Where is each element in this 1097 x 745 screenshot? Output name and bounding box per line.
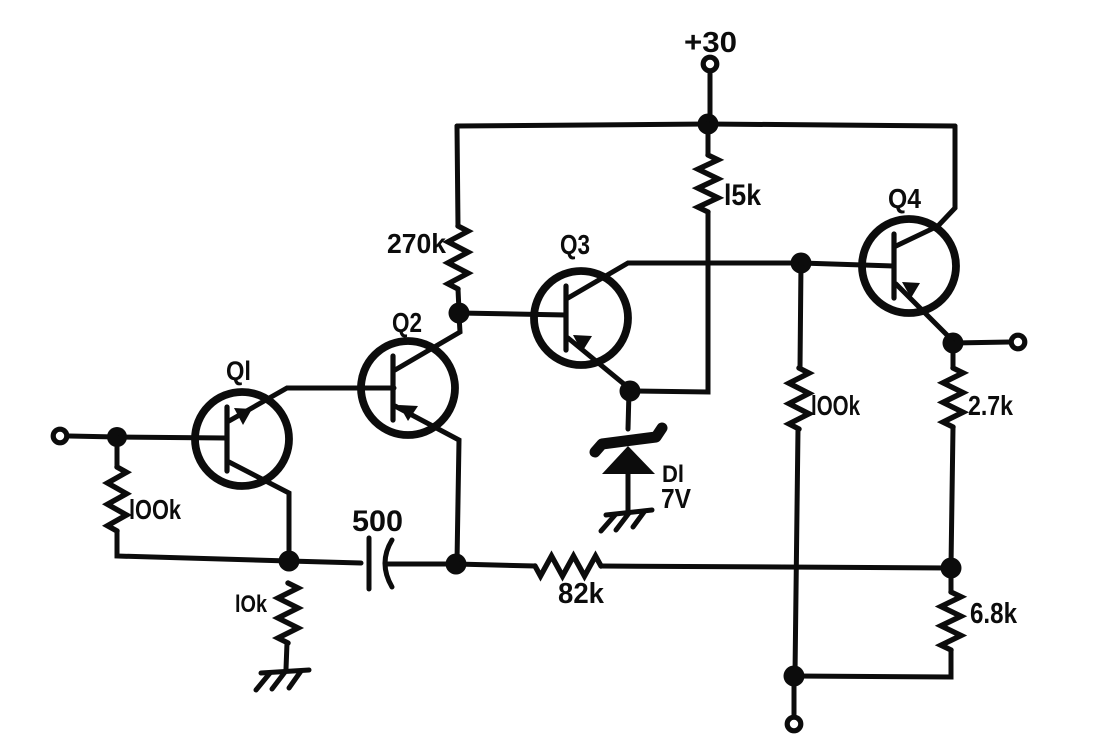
svg-text:270k: 270k <box>387 228 446 259</box>
wire 270k to node B <box>458 289 459 311</box>
terminal input <box>53 429 67 443</box>
svg-text:Q2: Q2 <box>392 307 422 338</box>
wire rail to 270k <box>457 126 458 226</box>
wire output node to 2.7k <box>951 343 956 368</box>
label 10k <box>235 591 268 618</box>
Q1 collector lead <box>229 462 289 559</box>
capacitor 500 <box>369 538 392 589</box>
resistor 10k <box>278 583 298 643</box>
resistor 82k <box>535 556 601 576</box>
transistor Q4 (PNP) <box>862 219 956 313</box>
svg-text:7V: 7V <box>661 483 691 514</box>
Q4 emitter arrow (PNP) <box>902 282 920 298</box>
label Q2 <box>392 307 422 338</box>
wire node F to 6.8k <box>949 568 954 592</box>
svg-text:lOk: lOk <box>235 591 268 618</box>
wire bottom rail to capacitor <box>289 561 361 563</box>
zener D1 anode triangle <box>602 446 655 474</box>
node E (Q3 collector / 100k / Q4 base) <box>791 253 812 274</box>
label 15k <box>724 179 761 212</box>
transistor Q1 (PNP) <box>195 392 289 486</box>
Q1 emitter arrow (PNP) <box>234 408 252 425</box>
Q4 collector lead <box>896 126 955 246</box>
wire input to Q1 base <box>69 436 226 438</box>
wire capacitor to node C <box>387 562 456 567</box>
svg-text:2.7k: 2.7k <box>968 390 1013 421</box>
wire top supply rail <box>457 124 955 126</box>
node Q1 collector junction <box>279 551 300 572</box>
label Q3 <box>560 229 590 260</box>
svg-text:Q3: Q3 <box>560 229 590 260</box>
svg-text:82k: 82k <box>558 578 605 610</box>
resistor 15k <box>698 155 718 212</box>
node input bias junction <box>107 427 127 447</box>
transistor Q2 (PNP) <box>361 341 455 435</box>
wire 15k to node D <box>632 212 708 392</box>
label 500 <box>352 505 403 538</box>
Q3 collector lead <box>568 263 801 298</box>
terminal output <box>1011 335 1025 349</box>
node D (Q3 emitter / zener / 15k) <box>620 381 641 402</box>
label 82k <box>558 578 605 610</box>
wire 100k to bottom rail <box>117 531 289 561</box>
Q2 emitter lead <box>395 406 459 562</box>
label Q4 <box>888 183 921 214</box>
svg-text:500: 500 <box>352 505 403 538</box>
resistor 100k right <box>789 368 809 429</box>
ground below 10k <box>256 670 309 690</box>
svg-text:6.8k: 6.8k <box>970 598 1018 630</box>
wire 6.8k to node G <box>794 650 951 677</box>
wire to output terminal <box>953 342 1010 343</box>
terminal +30 <box>703 57 717 71</box>
svg-text:Ql: Ql <box>226 356 251 386</box>
wire node to 100k <box>115 437 120 467</box>
wire node E to Q4 base <box>801 263 894 266</box>
svg-text:l5k: l5k <box>724 179 761 212</box>
node C (cap / Q2 emitter / 82k) <box>446 554 467 575</box>
label 6.8k <box>970 598 1018 630</box>
wire 100k to node G <box>795 429 798 674</box>
Q1 emitter lead <box>229 388 394 421</box>
label +30 supply <box>684 27 737 59</box>
wire 10k to ground <box>286 643 287 669</box>
node output (Q4 emitter) <box>943 333 964 354</box>
wire node B to Q3 base <box>459 313 566 315</box>
wire 82k to node F <box>601 566 951 568</box>
label 270k <box>387 228 446 259</box>
node supply rail junction <box>698 114 719 135</box>
node F (82k / 2.7k / 6.8k) <box>941 558 962 579</box>
wire +30 to rail <box>708 72 713 122</box>
label 2.7k <box>968 390 1013 421</box>
transistor Q3 (PNP) <box>534 271 628 365</box>
svg-text:lOOk: lOOk <box>811 390 860 421</box>
Q3 emitter arrow (PNP) <box>573 335 592 352</box>
wire node C to 82k <box>456 564 535 566</box>
resistor 6.8k <box>941 592 961 650</box>
wire node G to bottom terminal <box>792 676 797 716</box>
node B (Q2 collector / Q3 base) <box>449 303 470 324</box>
wire zener to ground <box>626 472 631 513</box>
resistor 2.7k <box>943 368 963 427</box>
Q2 emitter arrow (PNP) <box>399 405 418 421</box>
svg-text:lOOk: lOOk <box>129 494 181 525</box>
Q2 collector lead <box>395 315 460 370</box>
label 7V <box>661 483 691 514</box>
node G (bottom junction) <box>784 666 805 687</box>
ground below D1 <box>601 510 652 531</box>
zener D1 cathode bar <box>595 428 662 452</box>
label 100k input <box>129 494 181 525</box>
Q4 emitter lead <box>896 284 953 341</box>
Q3 emitter lead <box>568 338 630 389</box>
wire node E to 100k <box>800 263 801 368</box>
wire 2.7k to node F <box>951 427 953 566</box>
wire rail to 15k <box>706 124 711 155</box>
label Q1 <box>226 356 251 386</box>
wire node D to zener <box>628 391 629 429</box>
svg-text:+30: +30 <box>684 27 737 59</box>
terminal bottom <box>787 717 801 731</box>
label D1 <box>662 461 684 488</box>
resistor 270k <box>448 226 468 289</box>
resistor 100k input <box>108 467 127 531</box>
svg-text:Q4: Q4 <box>888 183 921 214</box>
label 100k right <box>811 390 860 421</box>
